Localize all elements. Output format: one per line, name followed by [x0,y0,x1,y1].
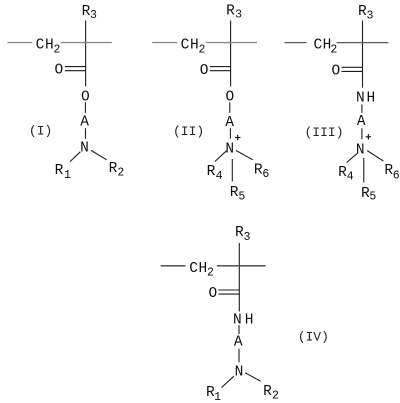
svg-text:5: 5 [369,190,376,203]
svg-text:3: 3 [235,9,242,22]
svg-text:2: 2 [330,43,337,56]
svg-text:(II): (II) [173,124,204,139]
svg-text:R: R [109,161,118,177]
structure I vertical bond R3-C-C(=O) [85,21,87,87]
structure III backbone bond left [285,42,307,44]
svg-text:4: 4 [347,170,354,183]
svg-text:2: 2 [53,44,60,57]
structure I bond N-R2 [91,150,107,159]
svg-text:C: C [36,38,45,54]
structure III C=O double bond upper [342,66,363,68]
structure II C=O double bond upper [210,66,231,68]
structure IV backbone bond left [161,265,186,267]
svg-text:A: A [225,115,234,131]
structure I backbone bond right [61,42,112,44]
svg-text:2: 2 [117,167,124,180]
svg-text:2: 2 [207,267,214,280]
structure II backbone bond right [206,42,257,44]
structure III bond N-R5 [363,158,365,183]
structure I C=O double bond upper [65,66,86,68]
svg-text:(IV): (IV) [298,330,329,345]
svg-text:R: R [207,164,216,180]
svg-text:6: 6 [393,169,400,182]
structure I backbone bond left [8,42,33,44]
structure II bond O-A [229,102,231,113]
svg-text:H: H [190,38,199,54]
structure II positive charge [235,135,240,140]
structure I bond N-R1 [70,152,80,162]
svg-text:4: 4 [216,170,223,183]
svg-text:A: A [80,115,89,131]
svg-text:N: N [356,91,365,107]
svg-text:3: 3 [244,231,251,244]
structure IV backbone bond right [217,265,266,267]
structure IV bond N-R2 [245,373,260,381]
svg-text:N: N [80,141,89,157]
svg-text:O: O [200,63,209,79]
svg-text:R: R [226,4,235,20]
svg-text:H: H [199,261,208,277]
structure III bond NH-A [361,105,363,113]
structure II backbone bond left [152,42,177,44]
structure II bond N-R4 [215,151,227,162]
svg-text:3: 3 [90,9,97,22]
svg-text:H: H [245,312,254,328]
svg-text:2: 2 [272,389,279,402]
svg-text:3: 3 [366,10,373,23]
svg-text:N: N [235,364,244,380]
svg-text:A: A [234,334,243,350]
structure IV bond A-N [238,349,240,363]
structure IV vertical bond R3-C-C(=O)-N [238,243,240,312]
structure III bond A-N [361,128,363,139]
structure III positive charge [366,134,371,139]
svg-text:H: H [367,91,376,107]
structure II vertical bond R3-C-C(=O) [230,21,232,87]
structure III backbone bond right [337,42,389,44]
svg-text:O: O [332,64,341,80]
svg-text:O: O [54,63,63,79]
structure III bond N-R6 [367,151,383,161]
svg-text:O: O [208,286,217,302]
svg-text:5: 5 [238,190,245,203]
svg-text:N: N [233,312,242,328]
structure IV C=O double bond upper [218,289,239,291]
svg-text:H: H [45,38,54,54]
structure II bond N-R5 [231,159,233,181]
structure II bond A-N [229,128,231,138]
structure I bond O-A [84,102,86,113]
svg-text:C: C [181,38,190,54]
structure III C=O double bond lower [342,70,363,72]
svg-text:6: 6 [262,168,269,181]
svg-text:1: 1 [214,391,221,403]
structure III vertical bond R3-C-C(=O) [362,21,364,88]
structure IV bond NH-A [238,325,240,334]
structure IV bond N-R1 [222,376,234,387]
svg-text:(I): (I) [29,124,52,139]
structure II bond N-R6 [236,151,253,160]
structure IV C=O double bond lower [218,293,239,295]
svg-text:N: N [225,142,234,158]
svg-text:R: R [263,384,272,400]
structure III bond N-R4 [347,153,358,162]
svg-text:A: A [357,114,366,130]
svg-text:N: N [356,143,365,159]
svg-text:2: 2 [198,44,205,57]
structure I bond A-N [85,128,87,139]
structure I C=O double bond lower [65,70,86,72]
structure II C=O double bond lower [210,70,231,72]
svg-text:1: 1 [64,169,71,182]
svg-text:C: C [313,38,322,54]
svg-text:R: R [55,163,64,179]
svg-text:C: C [189,261,198,277]
svg-text:(III): (III) [304,125,343,140]
